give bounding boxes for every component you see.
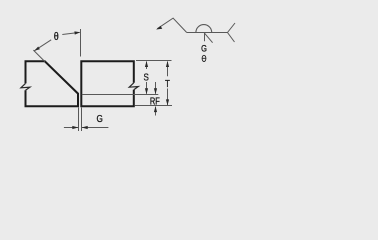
G dimension left line and arrow [64,127,78,129]
label theta (symbol) [202,55,206,61]
theta leader slanted segment [34,40,51,51]
right plate (square edge member) [81,61,134,106]
vertical extension line (groove edge) [80,29,82,57]
svg-text:RF: RF [150,96,161,107]
RF dimension lower outside arrow [155,107,157,116]
left plate (beveled member) [26,61,79,106]
RF dimension upper outside arrow [155,82,157,94]
right plate break symbol [129,83,138,90]
T dimension line lower part [167,89,169,106]
svg-text:S: S [144,72,149,83]
svg-text:θ: θ [54,32,59,44]
welding symbol tail [228,23,236,42]
S dimension upper arrow [146,62,148,70]
left plate break symbol [21,83,30,90]
bevel symbol vertical leg [204,33,206,42]
svg-text:G: G [201,44,207,54]
T dimension line upper part [167,62,169,77]
contour semicircle on reference line [196,25,212,33]
top surface extension line [136,60,172,62]
theta leader arrowhead (right) [74,31,80,34]
G dimension right line and arrow [82,127,109,129]
theta leader horizontal segment [62,32,79,34]
G extension line (left plate edge) [78,108,80,132]
bottom extension line [135,105,173,107]
welding symbol arrow line [157,18,186,32]
svg-text:G: G [97,113,103,124]
bevel extension line [33,50,45,62]
bevel symbol slanted leg [204,33,212,43]
root face level line across right plate [82,94,159,96]
S dimension lower line and arrow [146,82,148,94]
welding symbol arrowhead [156,26,162,30]
svg-text:T: T [165,78,170,89]
welding symbol reference line [187,32,228,34]
theta leader arrowhead (lower-left) [34,47,40,51]
G extension line (right plate edge) [81,108,83,132]
